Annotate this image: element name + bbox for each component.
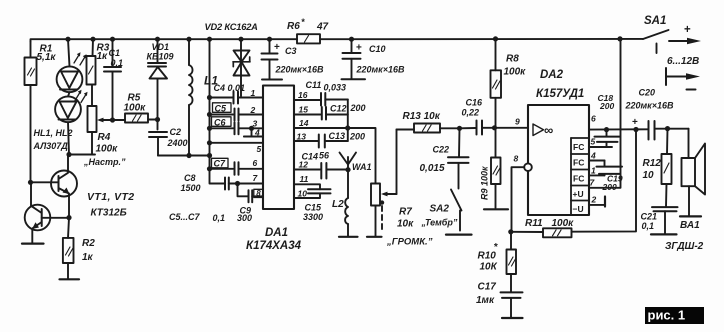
- svg-text:К157УД1: К157УД1: [536, 88, 584, 100]
- svg-text:220мк×16В: 220мк×16В: [275, 65, 325, 75]
- svg-text:C22: C22: [433, 145, 450, 155]
- svg-text:10: 10: [298, 189, 308, 199]
- svg-text:VD1: VD1: [152, 42, 170, 52]
- svg-text:6: 6: [591, 114, 596, 124]
- svg-text:8: 8: [256, 189, 261, 198]
- svg-text:11: 11: [300, 174, 309, 184]
- svg-text:5,1к: 5,1к: [37, 52, 57, 63]
- ground (VT2 emitter): [22, 243, 44, 245]
- svg-text:ЗГДШ-2: ЗГДШ-2: [665, 241, 704, 252]
- svg-text:12: 12: [299, 160, 309, 170]
- wire: pin 14 to R7: [294, 128, 376, 184]
- svg-text:2: 2: [250, 105, 256, 115]
- svg-text:0,1: 0,1: [111, 58, 124, 68]
- capacitor C17: [501, 292, 523, 317]
- svg-text:100к: 100к: [552, 218, 575, 229]
- label C13 200: [329, 131, 366, 142]
- svg-text:0,1: 0,1: [642, 221, 655, 231]
- loudspeaker BA1: [682, 129, 706, 216]
- junction (C14 / antenna): [345, 167, 350, 172]
- capacitor C21: [652, 184, 678, 234]
- svg-text:200: 200: [349, 132, 365, 142]
- capacitor C2: [149, 132, 167, 156]
- label C20 220mk x 16V: [625, 88, 675, 111]
- svg-text:C4 0,01: C4 0,01: [214, 83, 246, 93]
- potentiometer R7: [371, 130, 397, 237]
- zener VD2: [233, 39, 250, 96]
- svg-text:5: 5: [591, 137, 596, 147]
- label C14 56: [302, 151, 331, 162]
- capacitor C11, pin 16: [294, 93, 348, 106]
- svg-text:220мк×16В: 220мк×16В: [625, 101, 675, 111]
- svg-text:C8: C8: [184, 173, 196, 183]
- svg-text:R6: R6: [287, 21, 300, 32]
- svg-text:6: 6: [253, 158, 258, 168]
- label R12 10: [643, 158, 662, 181]
- junction (pin8/R10/R11): [508, 229, 513, 234]
- svg-text:C2: C2: [170, 127, 182, 137]
- svg-text:1: 1: [591, 166, 596, 176]
- label C8 1500: [181, 173, 201, 193]
- svg-text:R13 10к: R13 10к: [403, 111, 441, 122]
- svg-text:FC: FC: [573, 142, 584, 152]
- svg-text:1500: 1500: [181, 183, 201, 193]
- capacitor C18: [589, 130, 620, 147]
- resistor R3: [87, 39, 96, 106]
- svg-text:WA1: WA1: [352, 162, 372, 172]
- svg-text:SA1: SA1: [644, 15, 666, 27]
- capacitor C13, pin 13: [294, 135, 348, 148]
- svg-text:1к: 1к: [97, 51, 109, 62]
- capacitor C12, pin 15: [294, 107, 348, 120]
- svg-text:FC: FC: [573, 174, 584, 184]
- junction dots (DA1 rail): [207, 95, 254, 186]
- svg-text:10к: 10к: [397, 219, 414, 230]
- svg-text:0,22: 0,22: [462, 108, 480, 118]
- junction dots (left section): [28, 117, 212, 220]
- label R2 1k: [82, 238, 95, 263]
- svg-text:7: 7: [590, 178, 596, 188]
- svg-text:*: *: [301, 17, 305, 27]
- inductor L2: [345, 198, 348, 236]
- svg-text:200: 200: [602, 182, 617, 192]
- svg-text:*: *: [494, 242, 499, 253]
- svg-text:100к: 100к: [96, 144, 119, 155]
- capacitor C19: [589, 161, 622, 176]
- svg-text:C7: C7: [214, 159, 226, 169]
- svg-text:+U: +U: [573, 189, 584, 199]
- capacitor C10: [342, 39, 366, 79]
- label C10 220mk x 16V: [356, 44, 406, 75]
- svg-text:5: 5: [257, 144, 262, 154]
- LED HL2: [55, 90, 87, 155]
- svg-text:14: 14: [299, 118, 309, 128]
- svg-text:1к: 1к: [82, 252, 94, 263]
- label R3 1k: [97, 43, 110, 63]
- resistor R2: [63, 218, 74, 279]
- IC DA2 K157UD1: [528, 105, 589, 215]
- capacitor C5, pin 2: [210, 103, 264, 121]
- svg-text:200: 200: [350, 103, 366, 113]
- label C16 0,22: [462, 98, 484, 118]
- label C11 0,033: [306, 80, 347, 93]
- svg-text:R11: R11: [525, 218, 543, 229]
- svg-text:15: 15: [299, 105, 309, 115]
- capacitor C3: [262, 39, 283, 79]
- ground (C21): [651, 233, 677, 235]
- label C17 1mk: [476, 282, 496, 307]
- svg-text:C1: C1: [109, 48, 121, 58]
- svg-text:VD2 КС162А: VD2 КС162А: [205, 22, 259, 32]
- label C15 3300: [303, 203, 323, 223]
- switch SA2: [451, 190, 462, 231]
- svg-text:56: 56: [319, 151, 330, 161]
- svg-text:−U: −U: [573, 204, 584, 214]
- svg-text:R4: R4: [98, 132, 111, 143]
- label R7 10k: [397, 207, 414, 230]
- op-amp input symbol: [533, 123, 553, 138]
- label SA2 "Tembr": [421, 204, 458, 228]
- svg-text:C10: C10: [369, 44, 386, 54]
- wire: LED cathode / VT1 collector node: [69, 154, 95, 156]
- svg-text:∞: ∞: [544, 123, 553, 138]
- ground (R7): [367, 236, 382, 238]
- svg-text:R2: R2: [82, 238, 95, 249]
- svg-text:C15: C15: [305, 203, 323, 213]
- svg-text:ВА1: ВА1: [680, 220, 700, 231]
- power terminal -: [666, 68, 700, 90]
- resistor R12: [662, 129, 672, 184]
- svg-text:8: 8: [514, 154, 519, 164]
- svg-text:9: 9: [515, 117, 520, 127]
- resistor R5: [113, 114, 158, 123]
- wire: top supply rail: [31, 39, 644, 42]
- label C2 2400: [167, 127, 188, 148]
- svg-text:L2: L2: [332, 199, 344, 210]
- svg-text:100к: 100к: [504, 67, 527, 78]
- resistor R11: [511, 130, 636, 238]
- capacitor C4, pin 1: [210, 92, 264, 104]
- ground (BA1): [680, 215, 701, 217]
- junction (C18 tap): [604, 127, 609, 132]
- svg-text:DA1: DA1: [265, 227, 288, 239]
- wire: pin 4 tie to pin 3: [244, 128, 263, 136]
- svg-text:7: 7: [253, 173, 259, 183]
- svg-text:16: 16: [298, 90, 308, 100]
- svg-text:АЛ307Д: АЛ307Д: [33, 141, 69, 151]
- switch SA1: [643, 30, 669, 53]
- capacitor C7, pin 6: [210, 158, 264, 175]
- svg-text:КТ312Б: КТ312Б: [91, 208, 127, 219]
- svg-text:„Настр.”: „Настр.”: [83, 157, 126, 167]
- power terminal +: [669, 24, 701, 44]
- svg-text:10К: 10К: [480, 262, 498, 273]
- potentiometer R4: [88, 106, 113, 155]
- svg-text:DA2: DA2: [540, 69, 564, 81]
- svg-text:+: +: [274, 42, 280, 53]
- label C9 300: [237, 206, 252, 224]
- ground (SA2): [446, 234, 472, 236]
- svg-text:К174ХА34: К174ХА34: [246, 240, 302, 252]
- svg-text:+: +: [684, 24, 691, 36]
- transistor VT1: [31, 155, 78, 218]
- svg-text:SA2: SA2: [430, 204, 450, 215]
- svg-text:200: 200: [599, 101, 614, 111]
- resistor R6: [297, 34, 320, 43]
- junction (R11 feedback): [633, 127, 638, 132]
- label R4 100k: [96, 132, 119, 155]
- svg-text:4: 4: [254, 128, 260, 138]
- label R1 5,1k: [37, 44, 57, 64]
- svg-text:C13: C13: [329, 131, 346, 141]
- svg-text:220мк×16В: 220мк×16В: [356, 65, 406, 75]
- capacitor C14, pin 12: [294, 163, 348, 179]
- wire: pin 2 to ground: [589, 197, 605, 207]
- svg-text:C17: C17: [478, 282, 497, 293]
- svg-text:C6: C6: [214, 118, 226, 128]
- junction (bus / pin14): [345, 125, 350, 130]
- svg-text:КВ109: КВ109: [147, 52, 174, 62]
- inductor L1: [189, 39, 193, 155]
- svg-text:13: 13: [297, 132, 307, 142]
- svg-text:0,033: 0,033: [324, 83, 347, 93]
- ground (C17): [502, 317, 523, 319]
- capacitor C22: [448, 128, 469, 188]
- wire: pin 5 row: [210, 142, 264, 144]
- label R10* 10k: [478, 242, 499, 273]
- junction dots (top rail): [65, 36, 498, 42]
- svg-text:C21: C21: [641, 212, 658, 222]
- pin 8 bubble: [512, 163, 532, 231]
- svg-text:+: +: [356, 43, 362, 54]
- ground (L2): [339, 236, 358, 238]
- label HL1, HL2 AL307D: [33, 128, 73, 151]
- svg-text:4: 4: [590, 151, 596, 161]
- svg-text:FC: FC: [573, 158, 584, 168]
- svg-text:0,015: 0,015: [420, 163, 445, 174]
- capacitor C16: [460, 121, 495, 135]
- junction (R12 tap): [665, 126, 670, 131]
- label R11 100k: [525, 218, 574, 229]
- IC DA1 K174XA34: [263, 86, 294, 210]
- svg-text:0,1: 0,1: [213, 213, 226, 223]
- wire: DA1 left rail: [210, 39, 225, 183]
- svg-text:R8: R8: [506, 54, 519, 65]
- label C22 0,015: [420, 145, 450, 175]
- junction (C16/R8/R9): [492, 125, 497, 130]
- resistor R8: [491, 39, 502, 128]
- antenna WA1: [340, 153, 357, 199]
- dashed link (R7 wiper): [380, 200, 384, 233]
- svg-text:3300: 3300: [303, 212, 323, 222]
- svg-text:рис. 1: рис. 1: [648, 307, 686, 322]
- svg-text:6...12В: 6...12В: [667, 56, 699, 67]
- label C3 220mk x 16V: [275, 46, 325, 75]
- figure caption ris. 1: [645, 307, 704, 324]
- svg-text:C3: C3: [285, 46, 297, 56]
- varicap VD1: [148, 39, 167, 129]
- svg-text:100к: 100к: [124, 103, 147, 114]
- svg-text:C11: C11: [306, 80, 322, 90]
- label C19 200: [602, 174, 623, 193]
- wire: pin 6 output: [589, 128, 648, 130]
- capacitor C8, pin 7: [225, 178, 263, 190]
- junction (R13/C16/C22): [457, 126, 462, 131]
- svg-text:R9 100к: R9 100к: [480, 166, 490, 200]
- ground (R9): [484, 208, 508, 210]
- label R6* 47: [287, 17, 329, 33]
- capacitor C9, pin 8: [238, 184, 264, 203]
- svg-text:C12: C12: [330, 104, 347, 114]
- svg-text:2400: 2400: [167, 138, 188, 148]
- capacitor C6, pin 3: [210, 117, 264, 135]
- label C12 200: [330, 103, 366, 114]
- svg-text:1мк: 1мк: [476, 295, 495, 306]
- svg-text:C5: C5: [215, 104, 227, 114]
- capacitor C15: [294, 189, 331, 198]
- svg-text:47: 47: [316, 22, 329, 33]
- label C21 0,1: [641, 212, 658, 232]
- wire: to DA2 pin 9: [495, 127, 529, 129]
- svg-text:R7: R7: [399, 207, 412, 218]
- label VT1, VT2 KT312B: [87, 191, 135, 219]
- svg-text:C20: C20: [639, 88, 656, 98]
- label C18 200: [598, 93, 615, 111]
- svg-text:2: 2: [591, 195, 597, 205]
- svg-text:„Тембр”: „Тембр”: [421, 218, 458, 228]
- wire: C11/C12/C13 bus: [347, 100, 349, 142]
- wire: pin 11: [294, 184, 320, 189]
- svg-text:„ГРОМК.”: „ГРОМК.”: [386, 237, 433, 248]
- svg-text:HL1, HL2: HL1, HL2: [34, 128, 73, 138]
- label C1 0,1: [109, 48, 124, 68]
- label VD1 KV109: [147, 42, 174, 62]
- svg-text:C5...C7: C5...C7: [169, 212, 201, 222]
- wire: VD1/C2/L1 common to DA1 rail: [158, 155, 210, 157]
- svg-text:300: 300: [237, 213, 252, 223]
- resistor R13: [397, 124, 460, 133]
- ground (R2): [60, 278, 80, 280]
- capacitor C1: [104, 39, 121, 120]
- junction (supply riser / top rail): [617, 36, 622, 41]
- capacitor C20: [632, 117, 689, 140]
- transistor VT2: [25, 182, 69, 243]
- label R8 100k: [504, 54, 527, 78]
- resistor R10: [507, 232, 517, 292]
- LED HL1: [57, 39, 87, 92]
- wire: pin 7 supply riser: [589, 39, 621, 188]
- resistor R1: [25, 42, 37, 183]
- svg-text:VT1, VT2: VT1, VT2: [87, 191, 135, 203]
- resistor R9: [491, 128, 501, 208]
- svg-text:1: 1: [251, 88, 256, 98]
- label R5 100k: [124, 93, 147, 114]
- svg-text:R12: R12: [643, 158, 662, 169]
- svg-text:C16: C16: [466, 98, 484, 108]
- svg-text:+: +: [632, 117, 638, 128]
- svg-text:10: 10: [643, 170, 655, 181]
